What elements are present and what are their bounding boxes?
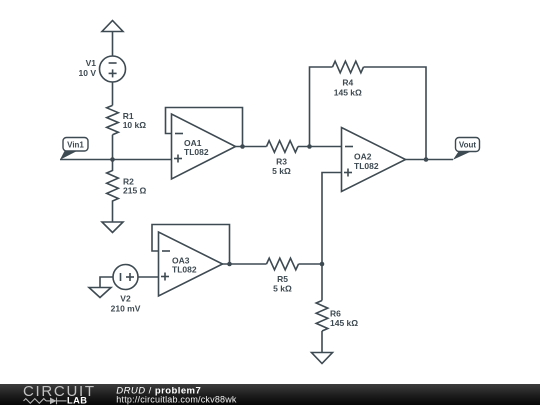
svg-text:OA2: OA2 — [354, 152, 372, 162]
svg-text:TL082: TL082 — [184, 147, 209, 157]
svg-text:10 V: 10 V — [79, 68, 97, 78]
wire R6 to ground — [321, 331, 323, 353]
label R4 value — [334, 78, 362, 98]
svg-text:R3: R3 — [276, 157, 287, 167]
wire V1 to R1 — [112, 82, 114, 105]
svg-text:R6: R6 — [330, 309, 341, 319]
wire OA3 output — [223, 263, 267, 265]
wire V2 to OA3 non-inverting input — [138, 276, 159, 278]
junction node OA2 output — [424, 157, 429, 162]
svg-text:TL082: TL082 — [172, 265, 197, 275]
svg-text:http://circuitlab.com/ckv88wk: http://circuitlab.com/ckv88wk — [116, 395, 237, 405]
op-amp OA3 — [159, 232, 223, 296]
wire OA3 feedback — [152, 225, 230, 265]
op-amp OA2 — [342, 128, 406, 192]
wire OA1 output — [236, 146, 267, 148]
svg-text:TL082: TL082 — [354, 161, 379, 171]
wire Vin1 net — [60, 159, 172, 161]
svg-text:145 kΩ: 145 kΩ — [330, 318, 358, 328]
svg-text:Vin1: Vin1 — [67, 140, 84, 149]
resistor R2 — [107, 160, 119, 223]
label R1 value — [123, 111, 147, 130]
resistor R4 — [333, 61, 364, 73]
resistor R1 — [107, 105, 119, 134]
resistor R5 — [267, 258, 299, 270]
label R5 value — [273, 274, 292, 294]
label OA1 — [184, 138, 209, 157]
wire R1 to node Vin1 — [112, 135, 114, 160]
wire V2 negative terminal to ground — [100, 277, 113, 288]
svg-text:LAB: LAB — [67, 396, 87, 405]
ground at V2 — [89, 288, 111, 298]
junction node R5/R6 — [320, 262, 325, 267]
voltage source V2 — [113, 265, 138, 290]
label R3 value — [272, 157, 291, 177]
voltage source V1 — [100, 56, 126, 82]
footer logo resistor-diode icon — [24, 398, 67, 405]
junction node OA3 output — [227, 262, 232, 267]
label R2 value — [123, 177, 147, 196]
label R6 value — [330, 309, 358, 329]
svg-text:10 kΩ: 10 kΩ — [123, 120, 147, 130]
junction node R3/R4 — [307, 144, 312, 149]
svg-text:R5: R5 — [277, 274, 288, 284]
op-amp OA1 — [172, 114, 236, 179]
svg-text:145 kΩ: 145 kΩ — [334, 88, 362, 98]
wire R3 to OA2 inverting input — [298, 146, 342, 148]
flag Vin1 — [60, 138, 88, 160]
svg-text:215 Ω: 215 Ω — [123, 186, 147, 196]
svg-text:V2: V2 — [120, 294, 131, 304]
wire R5 to node — [299, 263, 323, 265]
power flag VDD arrow — [102, 21, 123, 57]
junction node OA1 output — [240, 144, 245, 149]
footer bar — [0, 384, 540, 405]
label OA3 — [172, 256, 197, 275]
svg-text:5 kΩ: 5 kΩ — [272, 166, 291, 176]
svg-text:210 mV: 210 mV — [111, 304, 141, 314]
label V2 value — [111, 294, 141, 314]
svg-text:Vout: Vout — [459, 141, 477, 150]
svg-text:R4: R4 — [342, 78, 353, 88]
resistor R6 — [316, 301, 328, 332]
wire OA1 feedback — [166, 108, 243, 147]
wire OA2 non-inverting input branch — [322, 173, 342, 265]
resistor R3 — [267, 141, 299, 153]
wire R4 feedback right branch — [364, 67, 427, 160]
svg-text:V1: V1 — [86, 58, 97, 68]
label V1 value — [79, 58, 97, 78]
junction node Vin1 — [110, 157, 115, 162]
wire node to R6 — [321, 264, 323, 301]
wire R4 feedback left branch — [310, 67, 333, 147]
ground below R2 — [102, 222, 123, 233]
flag Vout — [453, 138, 480, 160]
wire OA2 output to Vout — [406, 159, 454, 161]
label OA2 — [354, 152, 379, 172]
ground below R6 — [312, 353, 333, 364]
svg-text:5 kΩ: 5 kΩ — [273, 284, 292, 294]
